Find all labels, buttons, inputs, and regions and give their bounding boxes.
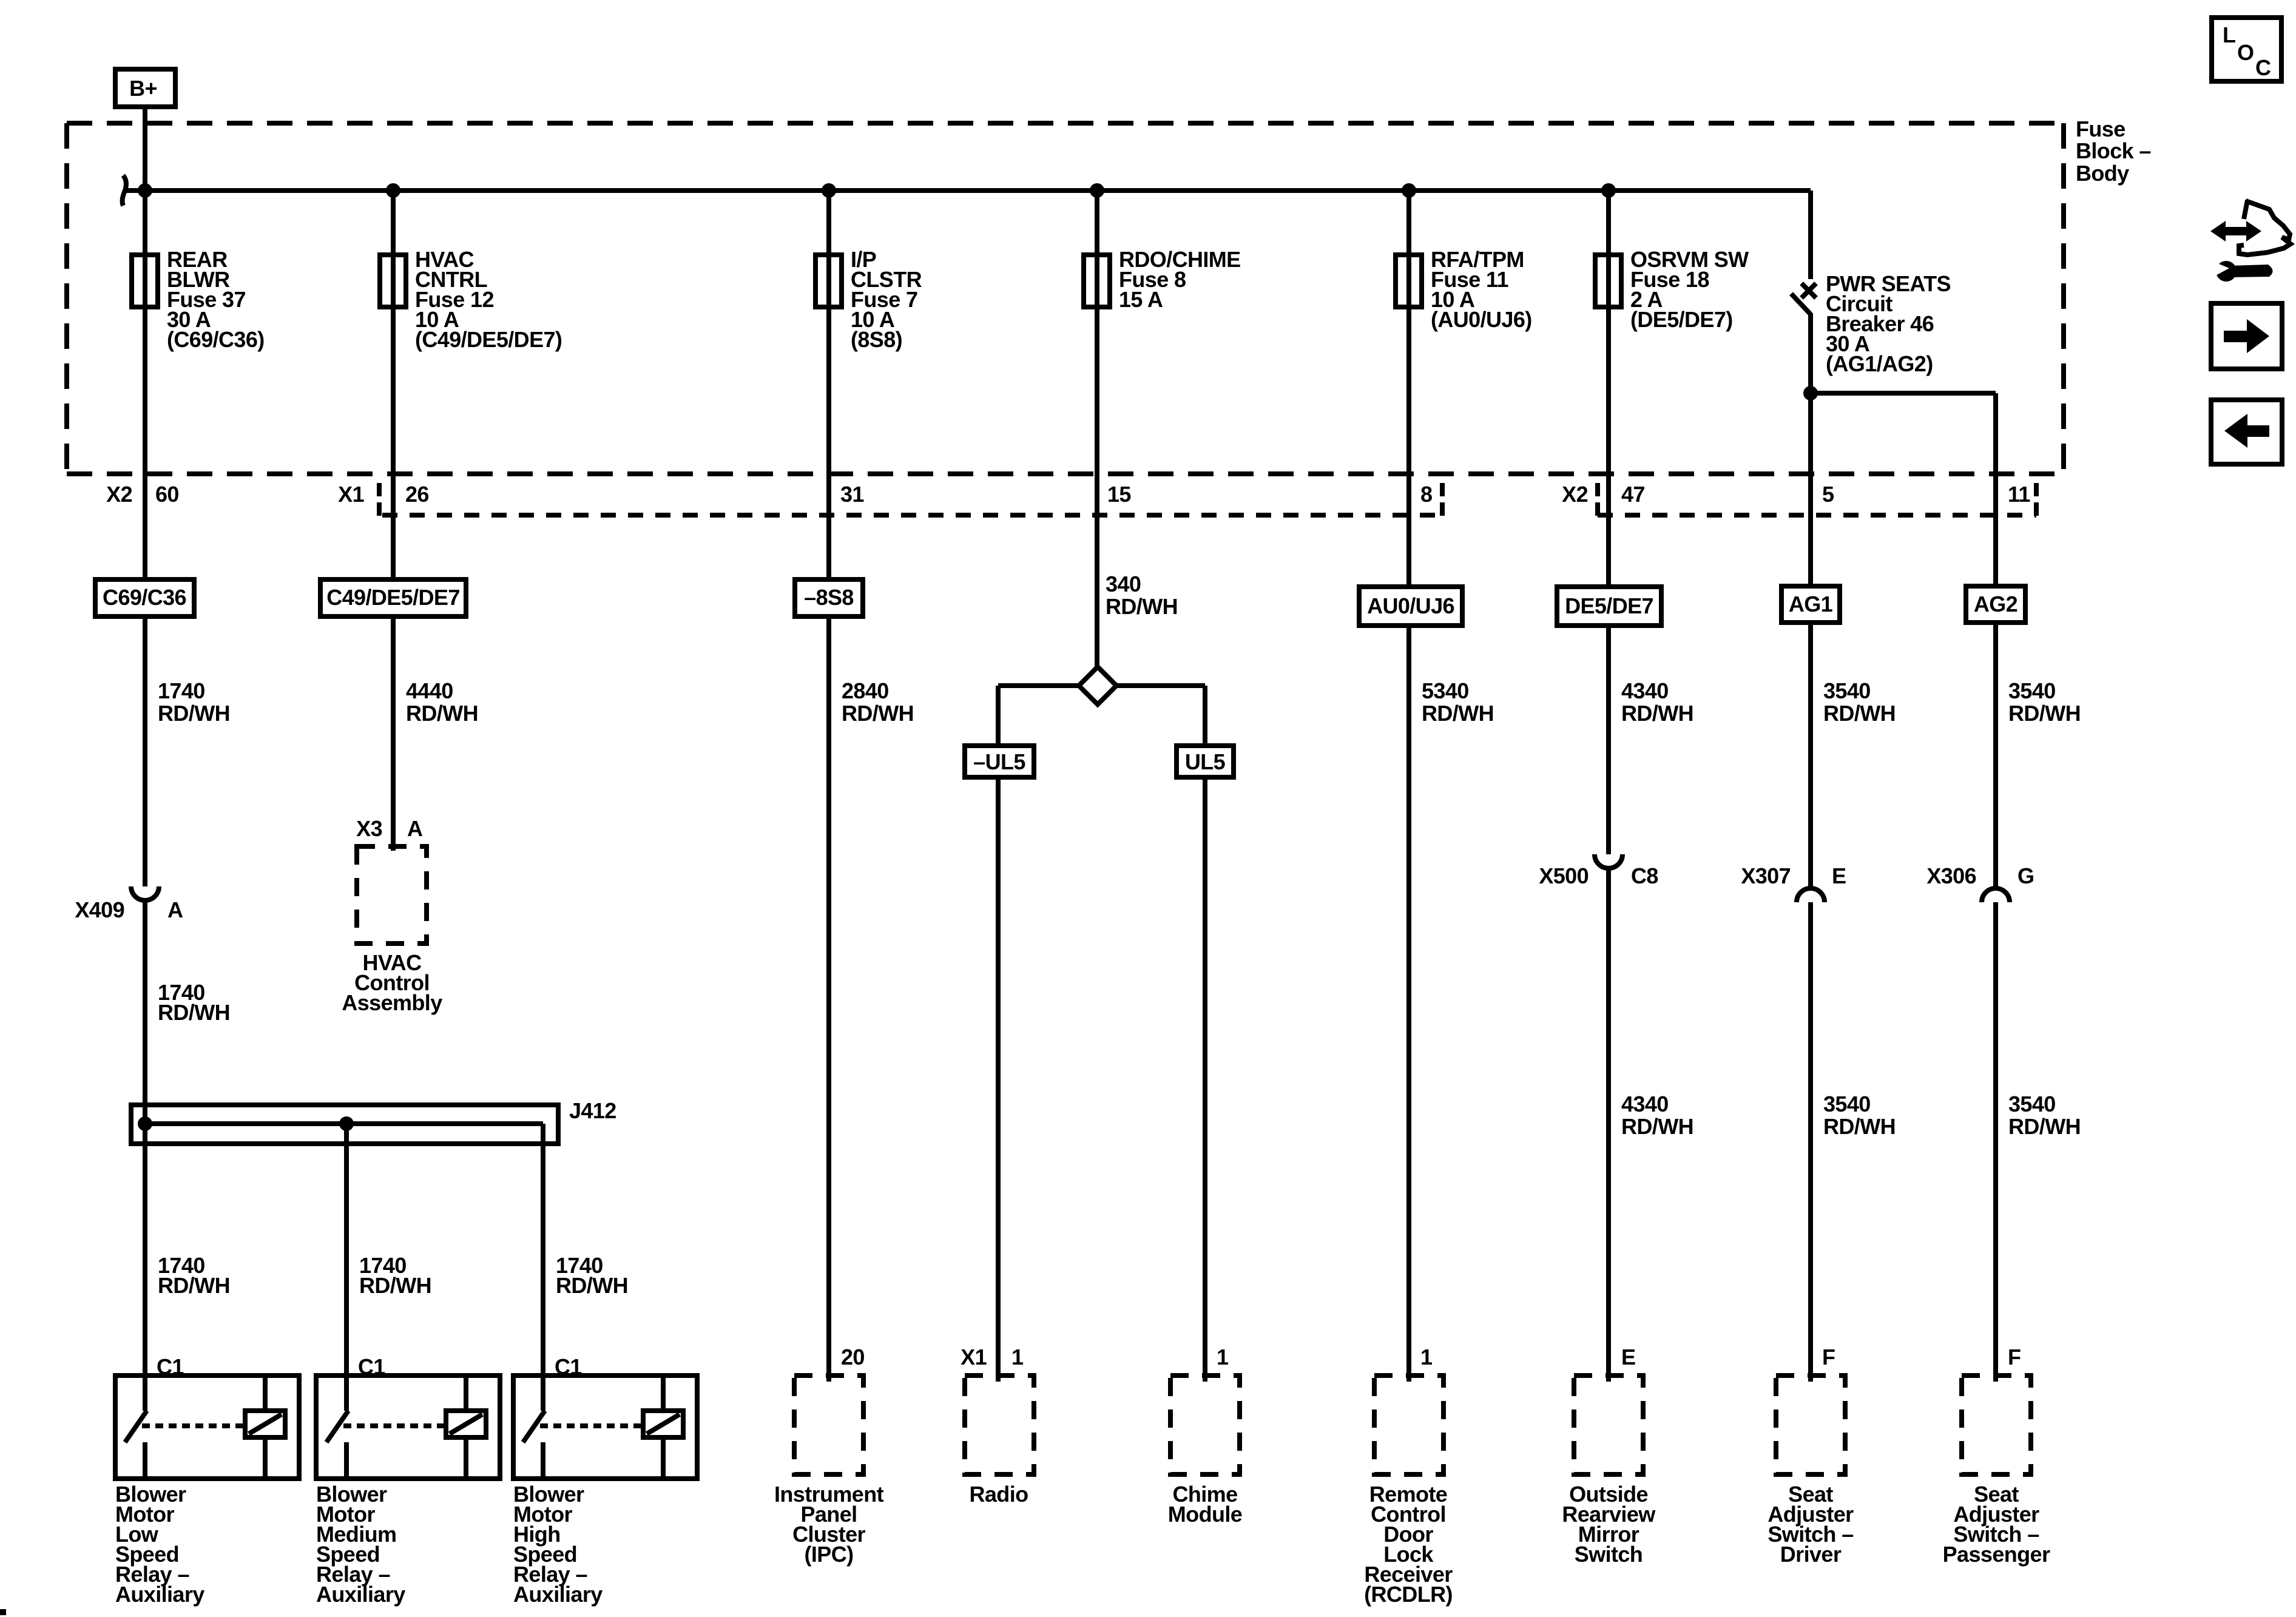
svg-text:Auxiliary: Auxiliary [115,1582,204,1607]
seat adjuster switch passenger dashed box [1962,1376,2031,1474]
wire splice to radio branch [998,683,1079,688]
connector boundary tick X2 [1595,483,1600,518]
svg-text:1: 1 [1011,1345,1024,1369]
label fuse 37 REAR BLWR 30 A (C69/C36) [167,247,265,352]
svg-text:Switch: Switch [1575,1542,1643,1567]
svg-text:15: 15 [1107,482,1131,507]
fuse F37 REAR BLWR [132,255,158,307]
svg-text:Passenger: Passenger [1943,1542,2050,1567]
svg-text:O: O [2237,40,2254,65]
wire chime column [1203,686,1207,1382]
svg-text:RD/WH: RD/WH [842,701,914,726]
svg-text:340: 340 [1106,572,1141,596]
svg-text:RD/WH: RD/WH [2008,1114,2081,1139]
svg-text:(C69/C36): (C69/C36) [167,327,265,352]
connector X1 inner dashed boundary [382,513,1442,518]
svg-text:(AU0/UJ6): (AU0/UJ6) [1431,307,1532,332]
wire label 3540 RD/WH below X306 [2008,1092,2081,1139]
relay K2 blower motor medium speed relay auxiliary box [316,1376,500,1479]
pin X2 60 fuse block [106,482,179,507]
svg-text:RD/WH: RD/WH [1823,1114,1896,1139]
connector X500 terminal C8 inline [1595,834,1622,868]
svg-text:(C49/DE5/DE7): (C49/DE5/DE7) [415,327,562,352]
junction at fuse 8 tap [1090,183,1104,198]
wire label 3540 RD/WH below X307 [1823,1092,1896,1139]
svg-text:60: 60 [155,482,179,507]
svg-text:A: A [167,897,183,922]
svg-text:RD/WH: RD/WH [1621,1114,1693,1139]
svg-text:Auxiliary: Auxiliary [513,1582,603,1607]
svg-text:Auxiliary: Auxiliary [316,1582,405,1607]
svg-text:Fuse: Fuse [2076,116,2125,141]
wire label 4340 RD/WH circuit 4340 [1621,678,1693,726]
svg-text:4340: 4340 [1621,1092,1669,1116]
svg-text:RD/WH: RD/WH [556,1273,628,1298]
svg-text:–UL5: –UL5 [973,749,1025,774]
relay K3 blower motor high speed relay auxiliary box [513,1376,697,1479]
scan artifact dot bottom left [0,1609,6,1615]
wire high speed relay column [541,1124,545,1411]
connector boundary tick X1 end [1440,483,1445,518]
wire label 4340 RD/WH below X500 [1621,1092,1693,1139]
svg-text:C49/DE5/DE7: C49/DE5/DE7 [326,585,460,610]
svg-text:3540: 3540 [1823,678,1871,703]
fuse F12 HVAC CNTRL [380,255,406,307]
svg-text:Radio: Radio [969,1482,1028,1507]
svg-text:5: 5 [1822,482,1834,507]
circuit breaker CB46 PWR SEATS [1791,191,1816,393]
connector label box AG1 [1781,586,1840,623]
wire RDO/CHIME feed column [1095,191,1099,669]
svg-text:Body: Body [2076,161,2129,186]
svg-text:X2: X2 [1562,482,1588,507]
svg-text:Block –: Block – [2076,138,2151,163]
fuse F18 OSRVM SW [1595,255,1621,307]
wire label 1740 RD/WH circuit 1740 [158,678,230,726]
svg-text:X306: X306 [1926,863,1976,888]
wire main B+ bus [126,188,1811,193]
icon forward arrow box [2211,303,2282,369]
svg-text:RD/WH: RD/WH [1823,701,1896,726]
label instrument panel cluster IPC [774,1482,884,1567]
junction at fuse 18 tap [1601,183,1616,198]
wire label 3540 RD/WH circuit 3540 passenger [2008,678,2081,726]
svg-text:L: L [2223,22,2235,47]
wire label 340 RD/WH circuit 340 [1106,572,1178,619]
svg-text:A: A [407,816,423,841]
svg-text:4340: 4340 [1621,678,1669,703]
label blower motor high speed relay auxiliary [513,1482,603,1607]
connector label box AU0/UJ6 [1359,587,1462,626]
wire AG2 seat passenger column [1993,393,1998,887]
svg-text:X500: X500 [1539,863,1589,888]
wire label 4440 RD/WH circuit 4440 [406,678,478,726]
label fuse 8 RDO/CHIME 15 A [1119,247,1241,312]
fuse F8 RDO/CHIME [1084,255,1110,307]
junction at AG1/AG2 split [1803,386,1818,400]
svg-text:3540: 3540 [2008,1092,2056,1116]
label blower motor medium speed relay auxiliary [316,1482,405,1607]
radio dashed box [965,1376,1034,1474]
connector X2 inner dashed boundary [1598,513,2036,518]
svg-text:1: 1 [1217,1345,1229,1369]
svg-text:RD/WH: RD/WH [406,701,478,726]
icon adjustable component hand with arrow and wrench [2210,200,2291,282]
svg-text:Module: Module [1168,1502,1242,1527]
connector label box C49/DE5/DE7 [320,579,466,616]
option label box UL5 [1177,746,1234,777]
svg-text:1740: 1740 [158,678,205,703]
label fuse 11 RFA/TPM 10 A (AU0/UJ6) [1431,247,1532,332]
svg-text:G: G [2017,863,2034,888]
svg-text:X409: X409 [75,897,124,922]
instrument panel cluster dashed box [794,1376,863,1474]
option label box -UL5 [965,746,1034,777]
wire label 1740 RD/WH below X409 [158,980,230,1025]
svg-text:11: 11 [2008,482,2030,507]
connector label box C69/C36 [95,579,194,616]
relay K1 switch contact [125,1411,245,1479]
label HVAC Control Assembly [342,950,442,1015]
wire B+ feed to bus [143,107,147,191]
relay K3 switch contact [523,1411,643,1479]
wire 3540 below X307 [1808,917,1813,1382]
relay K2 coil [446,1376,486,1479]
HVAC Control Assembly dashed box [357,846,427,944]
pin X1 26 fuse block [338,482,429,507]
fuse block body dashed outline [67,123,2064,474]
connector label box DE5/DE7 [1557,587,1661,626]
junction at fuse 11 tap [1402,183,1416,198]
pin X1 1 radio [961,1345,1024,1369]
svg-text:DE5/DE7: DE5/DE7 [1565,593,1653,618]
wire splice to chime branch [1116,683,1205,688]
svg-text:E: E [1621,1345,1635,1369]
wire label 1740 RD/WH high speed branch [556,1253,628,1298]
connector X307 terminal E inline [1797,888,1825,917]
svg-text:2840: 2840 [842,678,889,703]
svg-text:RD/WH: RD/WH [2008,701,2081,726]
label seat adjuster switch driver [1768,1482,1854,1567]
wire label 2840 RD/WH circuit 2840 [842,678,914,726]
label blower motor low speed relay auxiliary [115,1482,204,1607]
svg-text:RD/WH: RD/WH [1106,594,1178,619]
wire label 1740 RD/WH low speed branch [158,1253,230,1298]
svg-text:(AG1/AG2): (AG1/AG2) [1826,351,1933,376]
label connector X409 pin A [75,897,183,922]
wire OSRVM SW feed column [1606,191,1611,834]
outside rearview mirror switch dashed box [1574,1376,1643,1474]
wire rear blower feed column [143,191,147,869]
relay K1 blower motor low speed relay auxiliary box [115,1376,299,1479]
relay K1 coil [245,1376,285,1479]
svg-text:(RCDLR): (RCDLR) [1364,1582,1453,1607]
splice diamond node 340 RD/WH [1079,667,1116,704]
svg-text:C69/C36: C69/C36 [103,585,186,610]
svg-text:RD/WH: RD/WH [1621,701,1693,726]
connector boundary tick X2 end [2034,483,2039,518]
svg-text:RD/WH: RD/WH [158,701,230,726]
label connector X307 pin E [1741,863,1846,888]
svg-text:X1: X1 [961,1345,987,1369]
svg-text:Driver: Driver [1780,1542,1842,1567]
wire label 5340 RD/WH circuit 5340 [1422,678,1494,726]
node B+ power symbol [115,69,175,107]
svg-text:RD/WH: RD/WH [158,1273,230,1298]
relay K2 switch contact [326,1411,446,1479]
svg-text:X307: X307 [1741,863,1791,888]
svg-text:15 A: 15 A [1119,287,1163,312]
relay K3 coil [643,1376,683,1479]
svg-text:C: C [2255,55,2271,80]
junction J412 at medium speed relay wire [339,1116,354,1131]
label remote control door lock receiver RCDLR [1364,1482,1453,1607]
wire AG1/AG2 branch [1811,391,1996,396]
icon LOC legend box [2212,18,2281,81]
svg-text:C8: C8 [1631,863,1658,888]
label circuit breaker 46 PWR SEATS 30 A (AG1/AG2) [1826,271,1951,376]
svg-text:26: 26 [405,482,429,507]
svg-text:B+: B+ [129,76,157,101]
svg-text:AU0/UJ6: AU0/UJ6 [1367,593,1454,618]
svg-text:X3: X3 [356,816,382,841]
svg-text:J412: J412 [569,1098,616,1123]
svg-text:X2: X2 [106,482,132,507]
svg-text:(8S8): (8S8) [851,327,902,352]
svg-text:3540: 3540 [2008,678,2056,703]
svg-text:AG1: AG1 [1789,592,1833,616]
junction J412 at low speed relay wire [138,1116,152,1131]
wire label 3540 RD/WH circuit 3540 driver [1823,678,1896,726]
svg-text:8: 8 [1420,482,1432,507]
connector X306 terminal G inline [1982,888,2010,917]
splice pack J412 [131,1105,558,1144]
wire HVAC CNTRL feed column [391,191,396,851]
junction at fuse 12 tap [386,183,400,198]
svg-text:UL5: UL5 [1185,749,1226,774]
connector label box -8S8 [795,579,863,616]
svg-text:RD/WH: RD/WH [359,1273,431,1298]
label outside rearview mirror switch [1562,1482,1656,1567]
svg-text:1: 1 [1420,1345,1433,1369]
label connector X3 pin A [356,816,423,841]
label chime module [1168,1482,1242,1527]
wire medium speed relay column [344,1124,349,1411]
remote control door lock receiver dashed box [1374,1376,1443,1474]
wire I/P CLSTR feed column [826,191,831,1382]
label connector X306 pin G [1926,863,2034,888]
svg-text:AG2: AG2 [1974,592,2017,616]
bus continuation curl [123,175,126,206]
connector X409 terminal A inline [131,869,159,900]
fuse F11 RFA/TPM [1396,255,1422,307]
svg-text:RD/WH: RD/WH [1422,701,1494,726]
svg-text:E: E [1832,863,1846,888]
icon back arrow box [2211,400,2282,464]
svg-text:X1: X1 [338,482,364,507]
svg-text:4440: 4440 [406,678,453,703]
pin X2 47 fuse block [1562,482,1645,507]
svg-text:20: 20 [841,1345,865,1369]
label fuse 12 HVAC CNTRL 10 A (C49/DE5/DE7) [415,247,562,352]
seat adjuster switch driver dashed box [1776,1376,1845,1474]
svg-text:5340: 5340 [1422,678,1469,703]
wire radio column [996,686,1001,1382]
wire 4340 below X500 [1606,868,1611,1382]
fuse F7 I/P CLSTR [815,255,842,307]
wire 3540 below X306 [1993,917,1998,1382]
connector label box AG2 [1966,586,2025,623]
connector boundary tick X1 [377,483,382,518]
label connector X500 pin C8 [1539,863,1658,888]
wire label 1740 RD/WH medium speed branch [359,1253,431,1298]
chime module dashed box [1170,1376,1240,1474]
junction at fuse 7 tap [822,183,836,198]
svg-text:F: F [2008,1345,2021,1369]
wire RFA/TPM feed column [1406,191,1411,1382]
label fuse 7 I/P CLSTR 10 A (8S8) [851,247,922,352]
svg-text:RD/WH: RD/WH [158,1000,230,1025]
svg-text:3540: 3540 [1823,1092,1871,1116]
svg-text:47: 47 [1621,482,1645,507]
label seat adjuster switch passenger [1943,1482,2050,1567]
svg-text:(DE5/DE7): (DE5/DE7) [1630,307,1733,332]
fuse block label Fuse Block - Body [2076,116,2151,186]
junction at fuse 37 tap [138,183,152,198]
svg-text:(IPC): (IPC) [805,1542,854,1567]
svg-text:Assembly: Assembly [342,990,442,1015]
wire AG1 seat driver column [1808,393,1813,887]
svg-text:–8S8: –8S8 [804,585,854,610]
wire 1740 below X409 [143,900,147,1411]
svg-text:31: 31 [840,482,864,507]
svg-text:F: F [1822,1345,1835,1369]
label fuse 18 OSRVM SW 2 A (DE5/DE7) [1630,247,1749,332]
